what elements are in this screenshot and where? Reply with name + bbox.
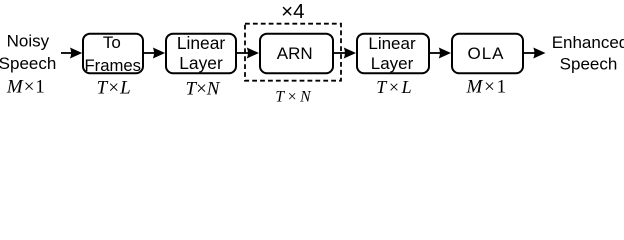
svg-text:T×L: T×L	[376, 77, 411, 97]
wire: arrow from To Frames to Linear Layer 1	[144, 48, 165, 59]
node: Noisy Speech input label	[0, 32, 56, 74]
block: To Frames	[83, 33, 143, 75]
block: ARN	[260, 34, 333, 73]
svg-text:T×N: T×N	[186, 78, 221, 99]
wire: arrow from Noisy Speech to To Frames	[61, 48, 82, 59]
svg-text:Layer: Layer	[371, 54, 414, 73]
wire: arrow from Linear Layer 1 to ARN	[237, 48, 259, 59]
svg-text:M×1: M×1	[465, 77, 506, 98]
svg-text:Linear: Linear	[368, 34, 416, 53]
svg-text:T×N: T×N	[275, 89, 312, 104]
svg-text:Speech: Speech	[560, 54, 618, 73]
svg-text:Enhanced: Enhanced	[552, 33, 624, 52]
svg-text:M×1: M×1	[6, 76, 45, 97]
svg-text:Noisy: Noisy	[7, 32, 50, 51]
svg-text:T×L: T×L	[97, 78, 131, 99]
svg-text:ARN: ARN	[277, 44, 313, 63]
block: OLA	[452, 34, 523, 73]
node: Enhanced Speech output label	[552, 33, 624, 74]
block: Linear Layer (first)	[166, 33, 236, 73]
wire: arrow from ARN to Linear Layer 2	[334, 48, 356, 59]
svg-text:Layer: Layer	[179, 53, 223, 73]
wire: arrow from Linear Layer 2 to OLA	[430, 48, 451, 59]
svg-text:To: To	[103, 33, 121, 52]
wire: arrow from OLA to Enhanced Speech	[524, 48, 546, 59]
svg-text:OLA: OLA	[467, 44, 504, 63]
svg-text:Speech: Speech	[0, 54, 56, 73]
group: dashed repeat box around ARN	[245, 24, 341, 81]
svg-text:Linear: Linear	[177, 33, 226, 53]
svg-text:Frames: Frames	[84, 56, 141, 75]
block: Linear Layer (second)	[357, 34, 429, 73]
svg-text:×4: ×4	[281, 0, 304, 23]
